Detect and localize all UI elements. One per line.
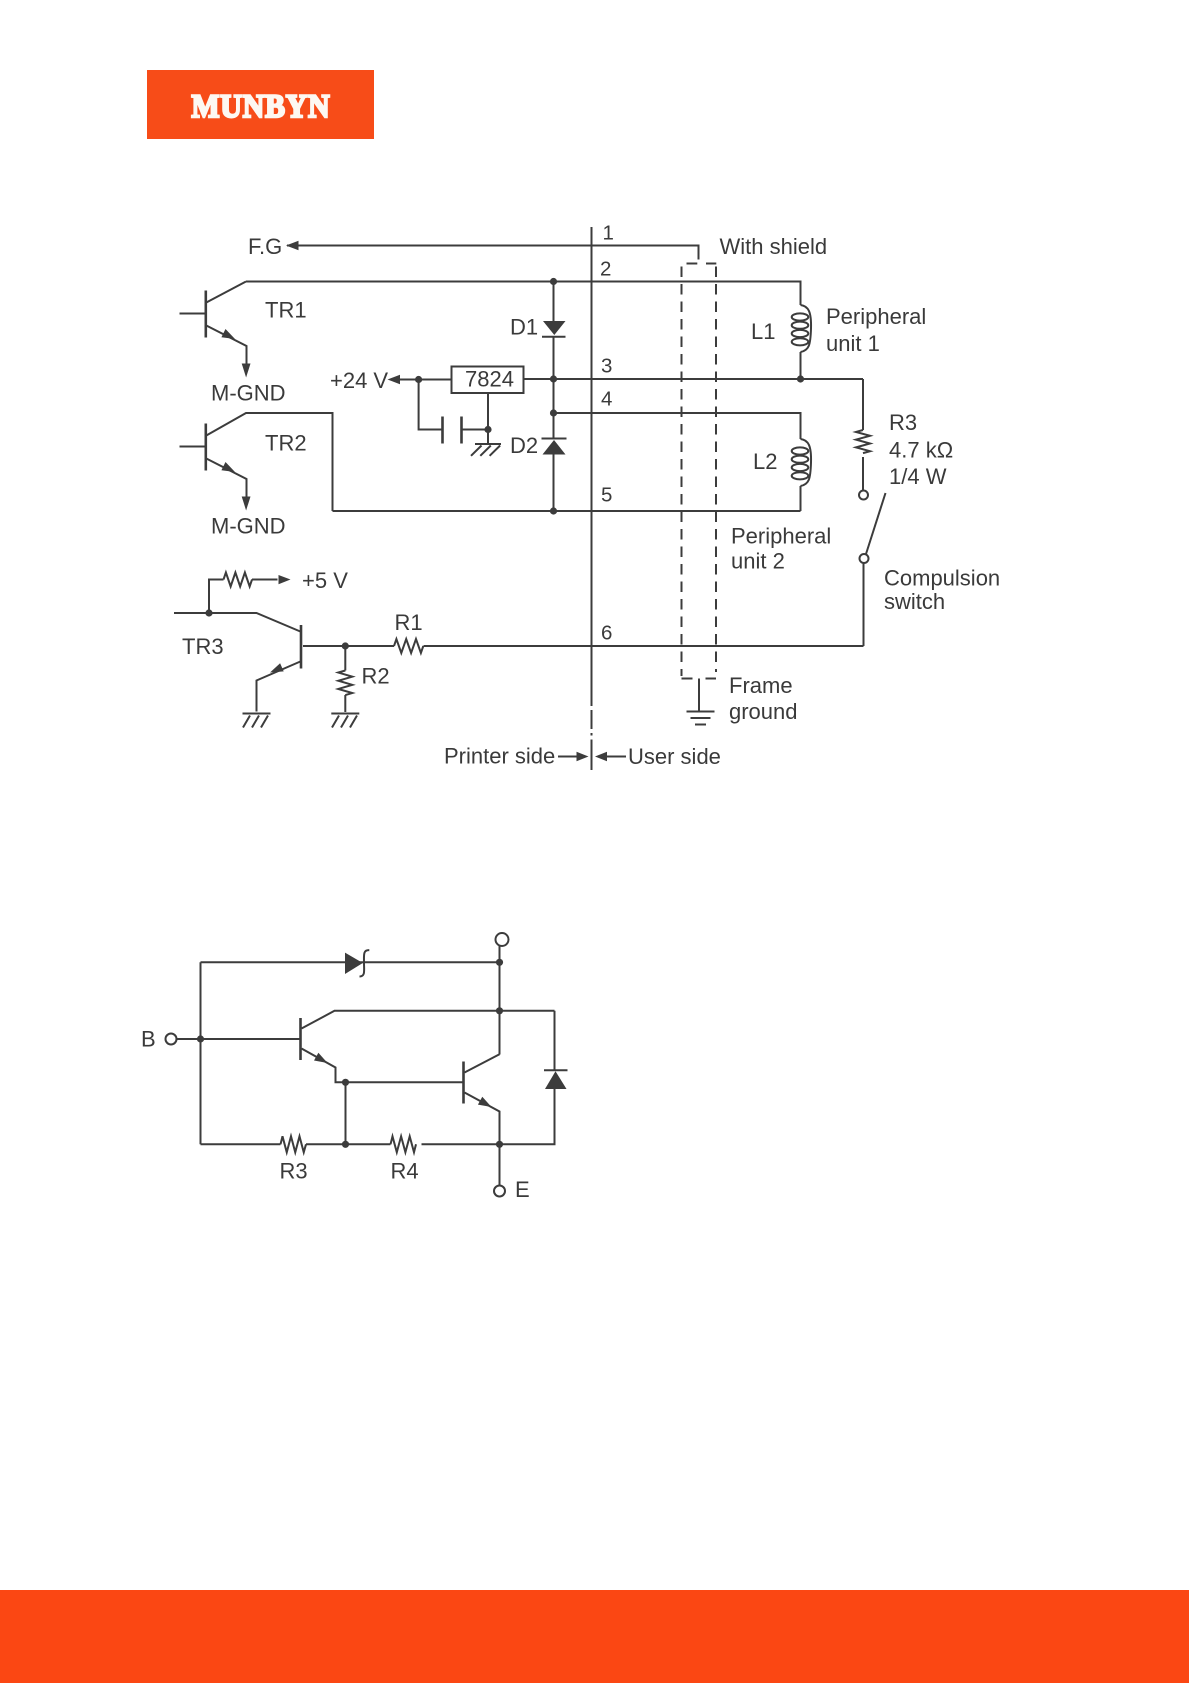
svg-text:unit 1: unit 1 [826, 331, 880, 356]
svg-text:1/4 W: 1/4 W [889, 464, 947, 489]
svg-text:L1: L1 [751, 319, 775, 344]
svg-text:4: 4 [601, 388, 612, 411]
svg-text:User side: User side [628, 744, 721, 769]
svg-text:R2: R2 [362, 664, 390, 689]
svg-text:L2: L2 [753, 449, 777, 474]
svg-text:6: 6 [601, 622, 612, 645]
svg-text:TR2: TR2 [265, 431, 307, 456]
svg-text:2: 2 [600, 258, 611, 281]
svg-text:1: 1 [603, 222, 614, 245]
svg-text:F.G: F.G [248, 234, 282, 259]
svg-text:B: B [141, 1027, 156, 1052]
svg-text:Peripheral: Peripheral [826, 304, 926, 329]
svg-text:R4: R4 [391, 1159, 419, 1184]
svg-text:TR3: TR3 [182, 634, 224, 659]
svg-text:3: 3 [601, 355, 612, 378]
svg-text:R1: R1 [395, 610, 423, 635]
svg-text:ground: ground [729, 699, 798, 724]
svg-text:+24 V: +24 V [330, 368, 388, 393]
svg-text:E: E [515, 1177, 530, 1202]
svg-text:D2: D2 [510, 433, 538, 458]
svg-text:Frame: Frame [729, 673, 793, 698]
svg-text:4.7 kΩ: 4.7 kΩ [889, 438, 953, 463]
svg-text:M-GND: M-GND [211, 514, 286, 539]
svg-text:Printer side: Printer side [444, 744, 555, 769]
svg-text:5: 5 [601, 484, 612, 507]
svg-text:+5 V: +5 V [302, 568, 348, 593]
svg-text:R3: R3 [889, 410, 917, 435]
svg-text:M-GND: M-GND [211, 381, 286, 406]
svg-text:switch: switch [884, 589, 945, 614]
svg-text:TR1: TR1 [265, 298, 307, 323]
svg-text:R3: R3 [280, 1159, 308, 1184]
svg-text:7824: 7824 [465, 367, 514, 392]
svg-text:unit 2: unit 2 [731, 549, 785, 574]
svg-text:Peripheral: Peripheral [731, 524, 831, 549]
svg-text:D1: D1 [510, 315, 538, 340]
svg-text:Compulsion: Compulsion [884, 566, 1000, 591]
svg-text:With shield: With shield [720, 234, 828, 259]
